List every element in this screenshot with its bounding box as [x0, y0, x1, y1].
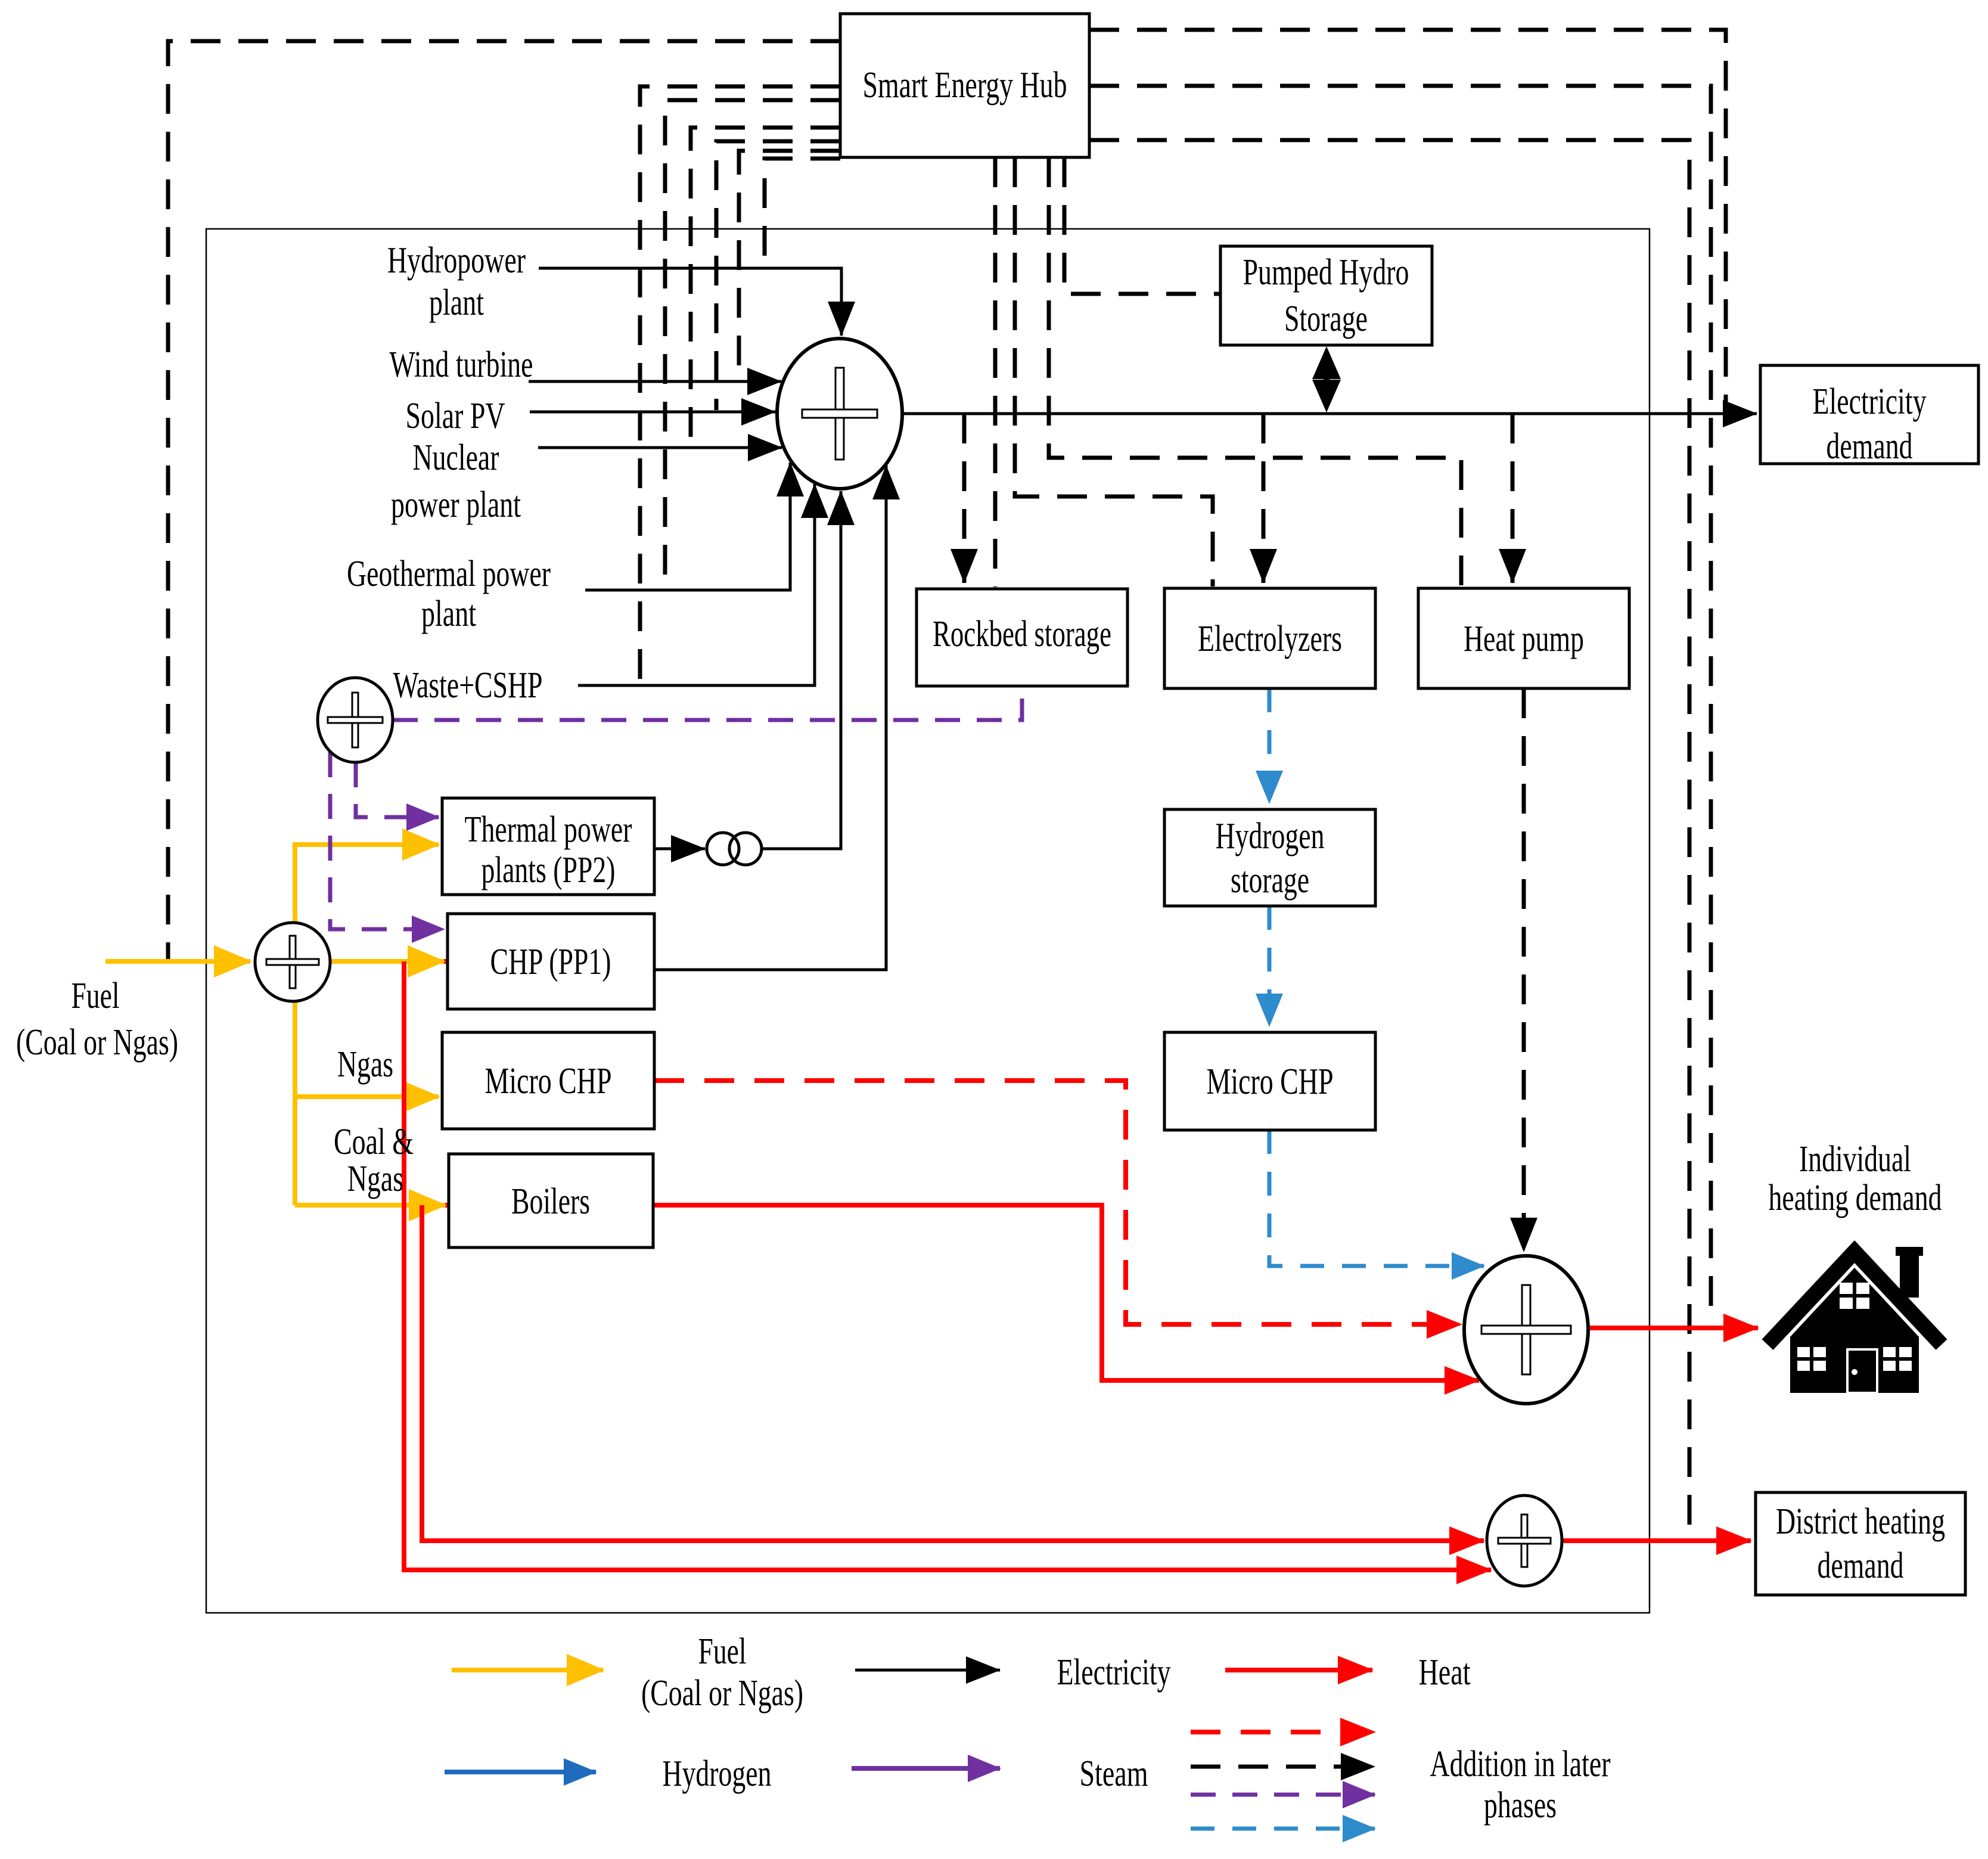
svg-text:Steam: Steam: [1080, 1754, 1148, 1794]
svg-text:Wind turbine: Wind turbine: [390, 345, 533, 385]
svg-text:storage: storage: [1231, 860, 1309, 901]
svg-text:Electricity: Electricity: [1057, 1652, 1171, 1693]
svg-text:demand: demand: [1827, 426, 1913, 467]
svg-text:heating demand: heating demand: [1769, 1178, 1942, 1218]
svg-text:Nuclear: Nuclear: [413, 437, 499, 478]
svg-text:Individual: Individual: [1799, 1139, 1911, 1180]
svg-text:Fuel: Fuel: [72, 976, 120, 1016]
svg-text:Hydropower: Hydropower: [387, 240, 526, 281]
svg-text:(Coal or Ngas): (Coal or Ngas): [16, 1022, 178, 1063]
svg-text:demand: demand: [1818, 1545, 1904, 1586]
svg-text:Micro CHP: Micro CHP: [485, 1061, 612, 1101]
svg-text:Boilers: Boilers: [511, 1181, 590, 1222]
svg-text:plants (PP2): plants (PP2): [482, 850, 616, 890]
svg-text:plant: plant: [429, 283, 484, 323]
svg-text:power plant: power plant: [391, 485, 521, 525]
svg-text:Smart Energy Hub: Smart Energy Hub: [863, 65, 1067, 105]
svg-text:CHP (PP1): CHP (PP1): [490, 942, 611, 982]
svg-text:Geothermal power: Geothermal power: [347, 554, 551, 594]
svg-text:Coal &: Coal &: [334, 1122, 414, 1162]
svg-text:Addition in later: Addition in later: [1430, 1744, 1611, 1784]
svg-text:Heat: Heat: [1419, 1652, 1471, 1693]
svg-text:Electricity: Electricity: [1813, 381, 1927, 422]
svg-text:(Coal or Ngas): (Coal or Ngas): [641, 1673, 803, 1714]
svg-text:Micro CHP: Micro CHP: [1207, 1062, 1334, 1102]
svg-text:Heat pump: Heat pump: [1464, 619, 1584, 659]
svg-text:Waste+CSHP: Waste+CSHP: [393, 665, 543, 706]
svg-text:plant: plant: [421, 594, 476, 634]
svg-text:Solar PV: Solar PV: [406, 396, 505, 436]
svg-text:Pumped Hydro: Pumped Hydro: [1243, 252, 1409, 293]
svg-text:Ngas: Ngas: [337, 1044, 393, 1085]
svg-text:Electrolyzers: Electrolyzers: [1198, 619, 1342, 659]
svg-text:District heating: District heating: [1776, 1501, 1945, 1542]
svg-text:Fuel: Fuel: [698, 1631, 747, 1672]
svg-text:Thermal power: Thermal power: [465, 809, 632, 850]
svg-text:Hydrogen: Hydrogen: [663, 1754, 772, 1794]
svg-text:Storage: Storage: [1284, 299, 1368, 339]
svg-text:Rockbed storage: Rockbed storage: [933, 614, 1111, 654]
svg-text:Hydrogen: Hydrogen: [1216, 816, 1325, 856]
svg-text:Ngas: Ngas: [347, 1159, 403, 1199]
svg-text:phases: phases: [1484, 1785, 1557, 1826]
